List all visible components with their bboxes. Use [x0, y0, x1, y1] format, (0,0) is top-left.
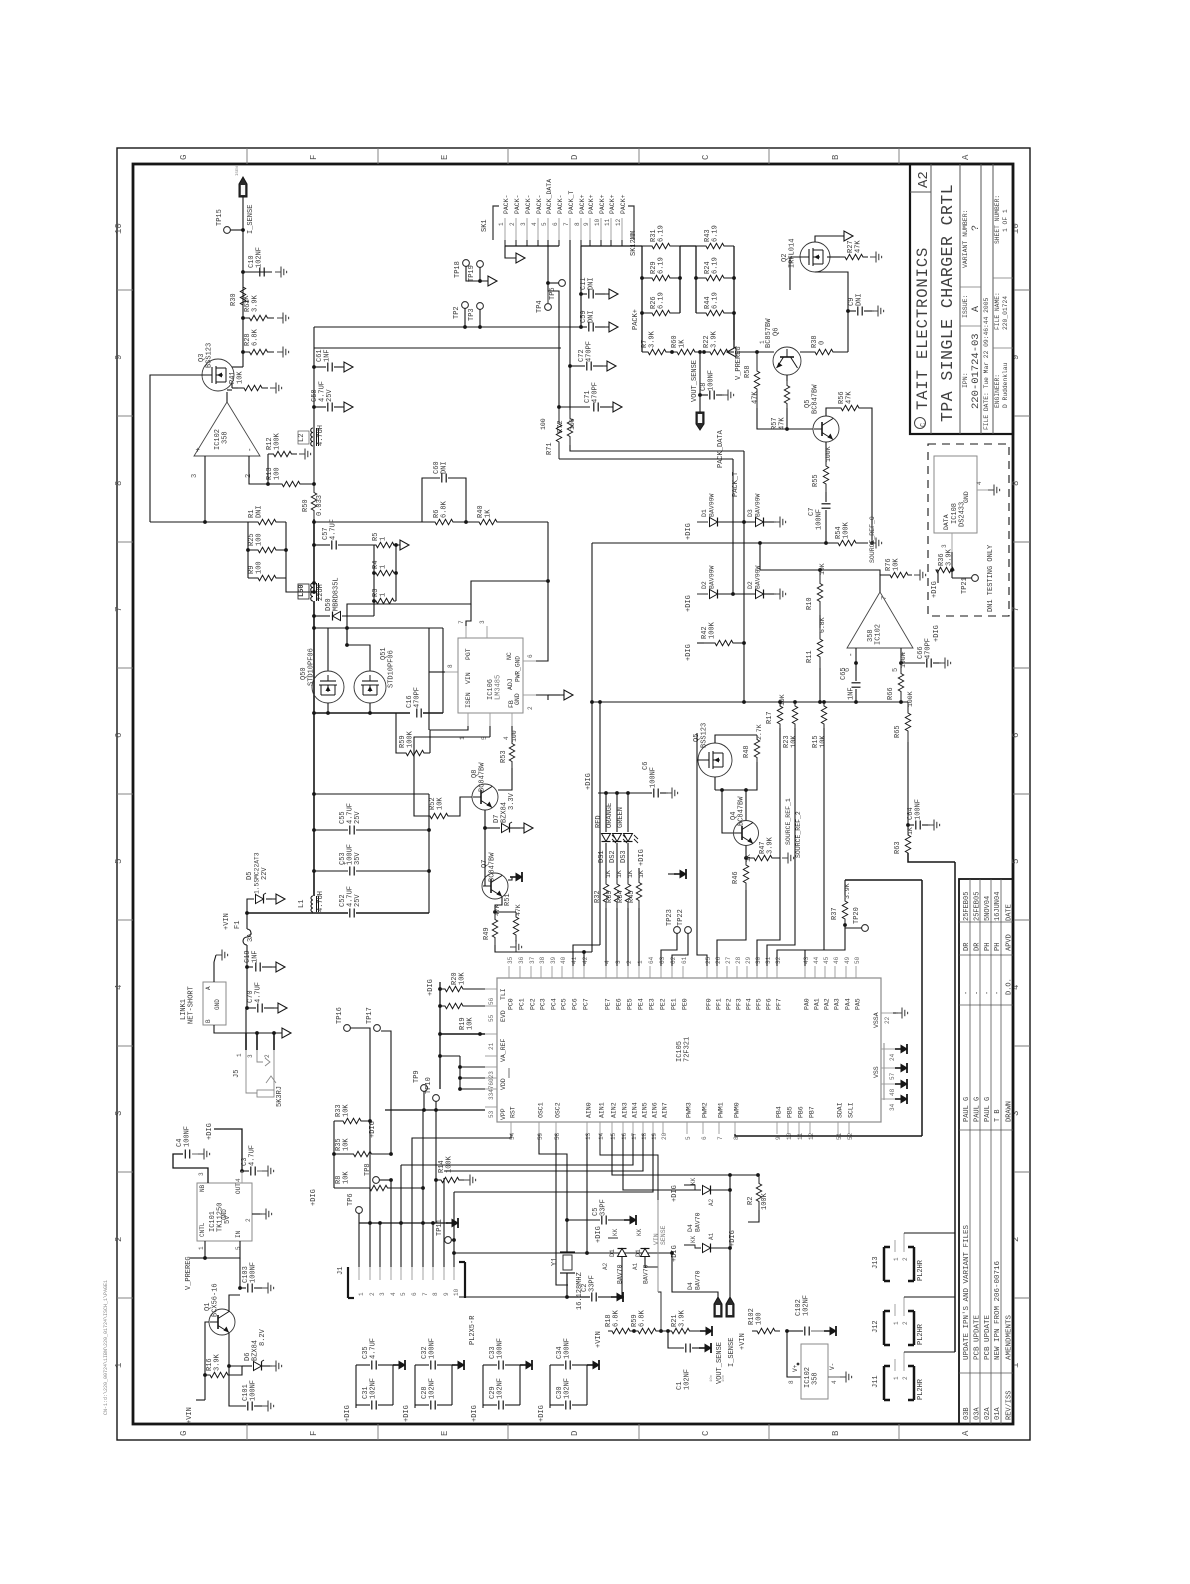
svg-text:KK: KK: [612, 1228, 619, 1236]
svg-text:10K: 10K: [343, 1171, 351, 1184]
wire op-amp pin3 non-inverting input: [204, 456, 206, 522]
svg-text:PE3: PE3: [649, 998, 656, 1010]
resistor R19 10K pullup EVD: [440, 1003, 468, 1008]
resistor R33 10K: [334, 1118, 370, 1123]
transistor Q3 BSS123: [232, 366, 243, 368]
svg-text:DRAWN: DRAWN: [1006, 1101, 1014, 1122]
svg-text:3: 3: [114, 1111, 124, 1116]
svg-text:PA5: PA5: [855, 998, 862, 1010]
svg-text:ISEN: ISEN: [465, 692, 472, 708]
svg-text:A: A: [205, 986, 212, 990]
wire AIN1 to VIN_SENSE: [600, 1134, 658, 1200]
svg-text:AIN1: AIN1: [599, 1102, 606, 1118]
svg-text:DATA: DATA: [943, 514, 950, 530]
svg-text:D.O.: D.O.: [1006, 978, 1014, 995]
svg-text:+DIG: +DIG: [538, 1405, 546, 1422]
amendments table column lines: [959, 921, 1013, 923]
svg-text:F: F: [309, 155, 319, 160]
svg-text:SDAI: SDAI: [837, 1102, 844, 1118]
svg-text:100NF: 100NF: [708, 370, 716, 391]
svg-text:DNI: DNI: [588, 310, 596, 323]
svg-text:PCB UPDATE: PCB UPDATE: [984, 1314, 992, 1360]
svg-text:5: 5: [685, 1136, 692, 1140]
capacitor C53 100UF 35V polarized: [314, 870, 348, 872]
svg-text:3: 3: [941, 544, 948, 548]
svg-text:REV/ISS: REV/ISS: [1006, 1391, 1014, 1420]
svg-text:G: G: [179, 155, 189, 160]
wire Q1 base to R16: [205, 1322, 209, 1366]
wire TP23 to mcu: [661, 933, 677, 966]
svg-text:SHEET NUMBER:: SHEET NUMBER:: [994, 195, 1001, 244]
wire clamp node D1-D3: [718, 521, 755, 523]
wire +VIN down to J5 pin 1: [246, 990, 247, 1033]
svg-text:R49: R49: [483, 927, 491, 940]
svg-text:D2: D2: [747, 581, 754, 589]
connector J5 5K3RJ power jack: [245, 1033, 247, 1050]
diode D3 BAV99W: [756, 518, 764, 527]
resistor R54 100K: [824, 541, 828, 545]
svg-text:4: 4: [390, 1292, 397, 1296]
svg-text:PF7: PF7: [776, 998, 783, 1010]
svg-text:58: 58: [554, 1132, 561, 1140]
svg-text:PACK_DATA: PACK_DATA: [717, 429, 725, 468]
wire I_SENSE vertical: [242, 197, 244, 367]
svg-text:35V: 35V: [354, 852, 362, 865]
wire PACK_DATA vertical: [732, 459, 734, 594]
resistor R14 100K on VPP line: [434, 1178, 438, 1182]
svg-text:R37: R37: [831, 907, 839, 920]
connector SK1 pin 11 PACK+: [610, 218, 612, 240]
signal ground arrow for pair: [520, 1364, 526, 1366]
capacitor C1 102NF: [668, 1331, 684, 1348]
svg-text:VSSA: VSSA: [873, 1012, 880, 1028]
wire IC101 CNTL pin1: [204, 1241, 206, 1258]
wire R63 to output rail: [908, 853, 955, 862]
resistor R56 47K: [826, 408, 838, 416]
inductor L2 4.7UH: [311, 428, 313, 446]
svg-text:GND: GND: [963, 491, 970, 503]
wire Q9 emitter down to R55: [825, 442, 827, 458]
svg-text:R17: R17: [766, 711, 774, 724]
diode D1 BAV70 dual (A2): [608, 1237, 618, 1239]
resistor R30 1K: [240, 280, 245, 312]
svg-text:OSC1: OSC1: [538, 1102, 545, 1118]
diode D2 BAV99W: [697, 593, 708, 595]
wire PACK_T from pin 7: [569, 240, 571, 410]
svg-text:PGT: PGT: [465, 648, 472, 660]
svg-text:5: 5: [114, 859, 124, 864]
resistor R57 47K: [784, 381, 789, 408]
wire decoupling pair rails: [355, 1365, 357, 1405]
svg-text:35: 35: [507, 956, 514, 964]
svg-text:10K: 10K: [459, 972, 467, 985]
svg-text:+DIG: +DIG: [671, 1185, 679, 1202]
svg-text:OUT: OUT: [235, 1183, 242, 1194]
capacitor C70 4.7UF: [245, 1006, 249, 1010]
resistor R28 6.8K: [241, 350, 245, 354]
svg-text:4: 4: [976, 481, 983, 485]
svg-text:PC4: PC4: [551, 998, 558, 1010]
svg-text:47K: 47K: [752, 391, 760, 404]
svg-text:AIN4: AIN4: [632, 1102, 639, 1118]
svg-text:25FEB05: 25FEB05: [963, 892, 971, 921]
diode D50 MBRD835L: [312, 614, 316, 618]
svg-text:A1: A1: [632, 1262, 639, 1270]
svg-text:DS2: DS2: [609, 850, 617, 863]
svg-text:TLI: TLI: [500, 988, 507, 1000]
net arrow PACK- to ground: [505, 246, 512, 258]
wire OSC2 routing: [556, 1134, 568, 1285]
svg-text:9: 9: [583, 222, 590, 226]
svg-text:PE4: PE4: [638, 998, 645, 1010]
dashed box DNI TESTING ONLY: [928, 444, 1009, 616]
svg-text:ISEN: ISEN: [236, 166, 240, 176]
svg-text:TP21: TP21: [961, 577, 969, 594]
mcu VSS ground arrow: [895, 1067, 901, 1069]
svg-text:7: 7: [422, 1292, 429, 1296]
zener diode D7 BZX84 3.3V: [485, 827, 500, 829]
svg-text:VIN: VIN: [653, 1233, 660, 1245]
svg-text:100NF: 100NF: [816, 509, 824, 530]
svg-text:6.8K: 6.8K: [613, 1309, 621, 1327]
svg-text:A2: A2: [602, 1262, 609, 1270]
wire feedback node horizontal: [150, 521, 248, 523]
svg-text:7: 7: [563, 222, 570, 226]
svg-text:TP17: TP17: [366, 1007, 374, 1024]
svg-text:PWM0: PWM0: [734, 1102, 741, 1118]
wire R65 to C64 node: [907, 742, 909, 830]
svg-text:+DIG: +DIG: [206, 1123, 214, 1140]
capacitor C66 470PF: [901, 662, 925, 664]
svg-text:32: 32: [775, 956, 782, 964]
wire Q1 emitter down: [228, 1333, 230, 1366]
wire IC101 OUT pin 4 to +DIG: [214, 1129, 242, 1171]
svg-text:470PF: 470PF: [414, 687, 422, 708]
wire PACK- bus: [504, 240, 506, 246]
svg-text:PACK-: PACK-: [536, 194, 543, 214]
resistor R25 100: [248, 547, 286, 552]
svg-text:DATE: DATE: [1006, 904, 1014, 921]
svg-text:BAV70: BAV70: [695, 1212, 702, 1232]
capacitor C60 DNI bridge: [422, 478, 440, 522]
svg-text:22UH: 22UH: [317, 584, 325, 601]
svg-text:02A: 02A: [984, 1407, 992, 1420]
svg-text:102NF: 102NF: [803, 1295, 811, 1316]
svg-text:R55: R55: [812, 474, 820, 487]
svg-text:PC7: PC7: [583, 998, 590, 1010]
svg-text:SK1: SK1: [481, 219, 489, 232]
svg-text:62: 62: [670, 956, 677, 964]
wire TP16 down to R33: [350, 1028, 370, 1121]
svg-text:1K: 1K: [745, 854, 752, 862]
svg-text:F1: F1: [234, 921, 242, 929]
svg-text:IN: IN: [235, 1230, 242, 1238]
svg-text:1: 1: [637, 960, 644, 964]
svg-text:EVD: EVD: [500, 1010, 507, 1022]
svg-text:3.9K: 3.9K: [711, 330, 719, 348]
test point TP16: [344, 1025, 351, 1032]
resistor R46 1K: [743, 858, 748, 890]
wire op-amp pin6 inverting: [855, 648, 857, 663]
wire R36 to DATA pin: [951, 552, 953, 578]
svg-text:5: 5: [235, 1246, 242, 1250]
svg-text:4.7UF: 4.7UF: [330, 519, 338, 540]
connector J11 PL2HR: [883, 1366, 886, 1400]
svg-text:L50: L50: [298, 584, 306, 597]
svg-text:10n: 10n: [722, 1374, 726, 1382]
svg-text:LM3485: LM3485: [495, 675, 503, 700]
svg-text:ENGINEER:: ENGINEER:: [994, 374, 1001, 408]
svg-text:4.7UF: 4.7UF: [255, 982, 263, 1003]
wire Q50/Q51 sources to common rail: [327, 703, 329, 713]
resistor R18 6.8K: [608, 1328, 634, 1333]
mcu VSS ground arrow: [895, 1048, 901, 1050]
svg-text:1: 1: [893, 1376, 900, 1380]
svg-text:PE0: PE0: [682, 998, 689, 1010]
connector SK1 pin 7 PACK_T: [569, 218, 571, 240]
svg-text:DNI: DNI: [256, 505, 264, 518]
svg-text:PACK+: PACK+: [609, 194, 616, 214]
op-amp IC102a LM358: [194, 402, 260, 456]
wire J11 pin2 feed: [904, 1351, 955, 1353]
wire RST pin 54 routing: [412, 1134, 511, 1223]
svg-text:100NF: 100NF: [250, 1262, 258, 1283]
IC108 pin 4 GND: [977, 489, 988, 491]
svg-text:F: F: [309, 1431, 319, 1436]
svg-text:PACK-: PACK-: [525, 194, 532, 214]
svg-text:25V: 25V: [354, 811, 362, 824]
drawing frame outer border: [117, 148, 1030, 1440]
capacitor C58 4.7UF 25V: [312, 405, 316, 409]
capacitor C34 100NF: [550, 1364, 564, 1366]
svg-text:TP20: TP20: [853, 907, 861, 924]
resistor R39 1K: [616, 843, 618, 878]
svg-text:470PF: 470PF: [586, 341, 594, 362]
net port I_SENSE bottom: [726, 1297, 734, 1317]
capacitor C64 100NF: [906, 823, 910, 827]
svg-text:PF6: PF6: [766, 998, 773, 1010]
svg-text:-: -: [848, 652, 856, 657]
capacitor C33 100NF: [483, 1364, 497, 1366]
svg-text:C: C: [701, 154, 711, 160]
svg-text:22: 22: [884, 1016, 891, 1024]
resistor R20 10K pullup TLI: [440, 986, 468, 991]
svg-text:100: 100: [511, 730, 518, 742]
svg-text:102NF: 102NF: [684, 1369, 692, 1390]
transistor Q6 BC857BW pnp: [773, 347, 801, 375]
test point TP8: [373, 1177, 380, 1184]
wire R17 down to source ref nets: [757, 728, 780, 966]
net arrow for C72: [593, 365, 603, 367]
zener diode D6 BZX84 8.2V: [242, 1365, 252, 1367]
transistor Q51 STD10PF06 mosfet: [354, 671, 386, 703]
svg-text:DR: DR: [963, 942, 971, 951]
svg-text:7: 7: [717, 1136, 724, 1140]
capacitor C61 1NF: [312, 365, 316, 369]
svg-text:4: 4: [503, 736, 510, 740]
svg-text:11: 11: [604, 218, 611, 226]
wire op-amp pin5 non-inverting: [900, 648, 902, 663]
svg-text:220_01724: 220_01724: [1002, 296, 1009, 330]
ground for C3: [262, 1170, 268, 1172]
net arrow for D5: [269, 898, 276, 900]
svg-text:102NF: 102NF: [564, 1378, 572, 1399]
resistor R17 10K: [777, 702, 782, 728]
mcu VSS ground arrow: [895, 1098, 901, 1100]
svg-text:BAV99W: BAV99W: [755, 493, 762, 517]
svg-text:48: 48: [889, 1088, 896, 1096]
svg-text:+DIG: +DIG: [403, 1405, 411, 1422]
svg-text:1K: 1K: [485, 509, 493, 518]
svg-text:A: A: [961, 154, 971, 160]
svg-text:1K: 1K: [907, 827, 914, 835]
svg-text:2: 2: [626, 960, 633, 964]
svg-text:1.5SMC22AT3: 1.5SMC22AT3: [254, 852, 261, 894]
thick ground for R21: [700, 1330, 706, 1332]
capacitor C31 102NF: [356, 1404, 370, 1406]
svg-text:2: 2: [114, 1237, 124, 1242]
svg-text:5NOV04: 5NOV04: [984, 896, 992, 921]
ground for C6: [660, 792, 668, 794]
svg-text:+DIG: +DIG: [638, 849, 646, 866]
svg-text:3: 3: [479, 620, 486, 624]
signal ground arrow for pair: [393, 1364, 399, 1366]
svg-text:6.19: 6.19: [712, 292, 720, 309]
svg-text:34: 34: [889, 1103, 896, 1111]
svg-text:R34: R34: [617, 890, 625, 903]
ground for C10: [275, 271, 281, 273]
svg-text:+DIG: +DIG: [595, 1226, 603, 1243]
svg-text:PACK-: PACK-: [557, 194, 564, 214]
ground for R61: [277, 317, 283, 319]
connector J1 PL2X5-R: [347, 1267, 349, 1298]
svg-text:37: 37: [529, 956, 536, 964]
net arrow for D7: [510, 827, 520, 829]
ground for D3: [764, 521, 776, 523]
resistor R66 100K: [898, 663, 903, 702]
svg-text:G: G: [179, 1431, 189, 1436]
svg-text:3: 3: [247, 1054, 254, 1058]
wire decoupling pair rails: [549, 1365, 551, 1405]
svg-text:PACK+: PACK+: [632, 309, 640, 330]
wire R37 to mcu PA: [805, 925, 845, 966]
transistor Q5 BSS123 mosfet: [698, 743, 732, 777]
svg-text:PF3: PF3: [736, 998, 743, 1010]
link LINK1 NET-SHORT: [203, 982, 226, 1025]
wire decoupling pair rails: [482, 1365, 484, 1405]
svg-text:61: 61: [681, 956, 688, 964]
svg-text:1: 1: [380, 565, 388, 569]
svg-text:SCLI: SCLI: [848, 1102, 855, 1118]
resistor R40 1K: [466, 519, 510, 524]
thick ground for C1: [692, 1347, 700, 1349]
mcu VPP pin 53: [485, 1106, 497, 1108]
resistor R38 0: [800, 349, 848, 354]
ground for C66: [933, 662, 941, 664]
svg-text:47K: 47K: [846, 391, 854, 404]
wire R11 bottom to feedback bus: [819, 668, 821, 702]
wire V_PREREG node down to Q1 collector: [239, 1258, 241, 1288]
svg-text:D: D: [570, 1431, 580, 1436]
svg-text:47K: 47K: [855, 240, 863, 253]
svg-text:8.2V: 8.2V: [259, 1328, 267, 1346]
ground for C101: [262, 1405, 268, 1407]
ground for D2b: [764, 593, 776, 595]
resistor R21 3.9K: [661, 1328, 700, 1333]
mcu bottom pins: [510, 1122, 512, 1134]
wire AIN5 to J1 pin4: [444, 1134, 643, 1171]
svg-text:DS3: DS3: [620, 850, 628, 863]
svg-text:3.9K: 3.9K: [679, 1309, 687, 1327]
wire Q3 source to op-amp loop: [231, 383, 233, 388]
wire VPP pull line: [385, 1109, 485, 1111]
svg-text:12: 12: [615, 218, 622, 226]
svg-text:8: 8: [114, 481, 124, 486]
svg-text:J12: J12: [872, 1320, 880, 1333]
ground near Q7: [508, 877, 512, 880]
resistor R47 3.9K: [746, 855, 780, 860]
svg-text:6.8K: 6.8K: [252, 328, 260, 346]
svg-text:1: 1: [893, 1257, 900, 1261]
svg-text:2: 2: [369, 1292, 376, 1296]
svg-text:100K: 100K: [761, 1192, 769, 1210]
inductor L1 4.7UH: [311, 896, 313, 912]
capacitor C5 33PF: [565, 1218, 569, 1222]
resistor R29 6.19: [642, 275, 680, 280]
ground for C102: [811, 1330, 826, 1332]
wire FB network to Q8: [498, 768, 512, 790]
svg-text:7: 7: [1011, 607, 1021, 612]
svg-text:TP9: TP9: [413, 1070, 421, 1083]
svg-text:PL2HR: PL2HR: [917, 1259, 925, 1281]
svg-text:PF4: PF4: [746, 998, 753, 1010]
svg-text:55: 55: [488, 1014, 495, 1022]
IC106 pin 5 ADJ stub: [489, 713, 491, 726]
test point TP5 on PACK_DATA: [559, 280, 566, 287]
svg-text:TP19: TP19: [468, 265, 476, 282]
svg-text:10: 10: [453, 1288, 460, 1296]
wire Q8 emitter to D7 node: [484, 810, 486, 838]
wire source ref 0 rail: [592, 542, 826, 544]
capacitor C2 33PF: [567, 1273, 590, 1297]
svg-text:0.033: 0.033: [316, 495, 324, 516]
svg-text:16: 16: [621, 1132, 628, 1140]
op-amp power block IC102 358: [787, 1331, 801, 1377]
svg-text:33PF: 33PF: [600, 1199, 608, 1216]
connector J13 PL2HR: [883, 1247, 886, 1281]
svg-text:PB5: PB5: [787, 1106, 794, 1118]
svg-text:10K: 10K: [779, 694, 786, 706]
transistor Q2 IRFL014 mosfet: [800, 242, 830, 272]
svg-text:28: 28: [735, 956, 742, 964]
ground for R12: [299, 453, 305, 455]
wire OSC1 routing: [539, 1134, 567, 1252]
svg-text:D2: D2: [701, 581, 708, 589]
test point TP19: [477, 261, 484, 268]
junction R50 bottom: [312, 520, 316, 524]
svg-text:PAUL G: PAUL G: [963, 1097, 971, 1122]
svg-text:44: 44: [813, 956, 820, 964]
svg-text:39: 39: [550, 956, 557, 964]
wire R15 down: [777, 728, 824, 966]
wire PC7 to logic net: [583, 952, 585, 966]
transistor Q7 BC847BW: [482, 873, 508, 899]
svg-text:+DIG: +DIG: [685, 523, 693, 540]
svg-text:100K: 100K: [709, 621, 717, 639]
svg-text:BSS123: BSS123: [701, 723, 709, 748]
svg-text:E: E: [440, 155, 450, 160]
wire op-amp output pin 7: [880, 575, 886, 592]
